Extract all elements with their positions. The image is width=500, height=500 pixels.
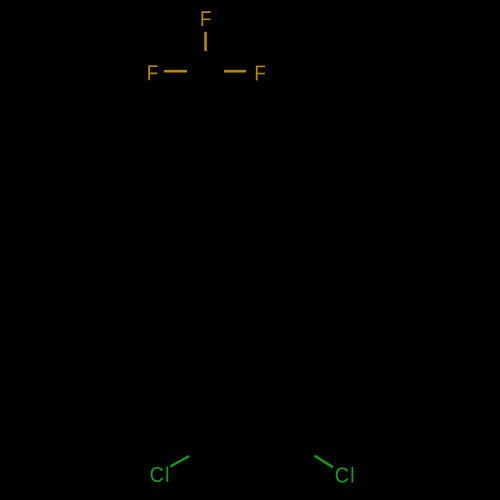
bond C3-Cl1 (diagonal half-bond, green): [170, 456, 189, 467]
atom F1 (top fluorine label): [201, 11, 210, 26]
bond C7-F3 (right horizontal half-bond, gold): [224, 70, 246, 73]
atom Cl1 (bottom-left chlorine label): [151, 466, 169, 482]
bond C7-F2 (left horizontal half-bond, gold): [164, 70, 187, 73]
stray green pixel at left bond tip (present in source rendering): [164, 70, 165, 72]
atom F2 (left fluorine label): [148, 65, 157, 80]
atom F3 (right fluorine label): [256, 66, 265, 81]
atom Cl2 (bottom-right chlorine label): [336, 467, 354, 483]
bond C5-Cl2 (diagonal half-bond, green): [315, 456, 334, 468]
bond C7-F1 (vertical half-bond, gold): [204, 32, 207, 51]
